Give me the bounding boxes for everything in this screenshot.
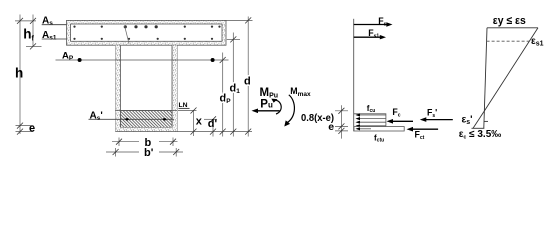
LN line <box>179 107 190 109</box>
svg-text:Fs': Fs' <box>427 107 437 119</box>
Fs1 arrow <box>354 36 381 38</box>
Fs' arrow <box>426 119 453 121</box>
dashed strain level line <box>487 40 529 42</box>
Mmax curved arrow <box>288 95 295 123</box>
middle dim line <box>335 105 348 138</box>
compression hatch block <box>121 111 173 128</box>
dimension slash ticks left <box>17 18 36 135</box>
right dimension lines <box>194 17 253 137</box>
d1 top extension <box>227 38 240 40</box>
x dim line <box>193 111 195 137</box>
force diagram axis <box>353 19 355 132</box>
d1 dim line <box>232 33 234 137</box>
strain axis vertical edge <box>484 28 487 129</box>
svg-text:e: e <box>328 121 334 133</box>
dp dim line <box>222 53 224 137</box>
flange rebar dots bottom row <box>73 38 75 40</box>
Ap tendon line <box>56 59 229 61</box>
Fct arrow <box>412 128 438 130</box>
compression stress block <box>354 114 386 127</box>
web inner stirrup lines <box>121 45 173 127</box>
es' level tick <box>484 120 488 122</box>
e ticks bottom left <box>16 126 34 132</box>
d dim line <box>247 17 249 137</box>
Pu arrow <box>257 110 280 112</box>
Fs arrow <box>354 24 387 26</box>
svg-text:Pu: Pu <box>260 99 273 111</box>
As' leader line with bars <box>89 118 175 120</box>
leader diagonal inside flange <box>125 26 130 44</box>
strain bottom edge <box>472 127 485 129</box>
hf bottom extension <box>26 45 42 47</box>
fctu tension bar <box>354 127 404 131</box>
svg-text:d': d' <box>208 118 218 130</box>
Ap tendon dot right <box>211 58 215 62</box>
left dimension: top reference line <box>15 15 42 135</box>
hatch bottom boundary <box>121 127 173 129</box>
svg-text:εy ≤ εs: εy ≤ εs <box>493 15 526 27</box>
d top extension (beam top extended) <box>226 19 253 21</box>
As1 leader line <box>42 38 67 40</box>
strain top edge <box>487 27 538 29</box>
strain slope line <box>473 28 538 129</box>
Fc arrow <box>392 120 413 122</box>
b dimension <box>112 138 178 147</box>
svg-text:e: e <box>29 122 35 134</box>
d' dim line <box>212 119 214 136</box>
b' dimension <box>106 148 183 157</box>
flange inner stirrup rectangle <box>71 24 222 41</box>
web left wall <box>115 45 117 131</box>
right dim slash ticks <box>191 17 252 134</box>
svg-text:b': b' <box>144 147 154 159</box>
As1 bar cluster <box>124 25 127 28</box>
svg-text:h: h <box>15 65 23 80</box>
stacked stress arrows <box>359 115 386 126</box>
strain diagram <box>472 28 539 129</box>
svg-text:As': As' <box>90 111 103 123</box>
bottom cover stipple band <box>116 128 178 132</box>
svg-text:d: d <box>244 76 251 88</box>
web bottom edge <box>116 131 253 133</box>
h dimension line <box>19 21 21 134</box>
web right wall <box>176 45 178 131</box>
flange outer rectangle <box>67 20 227 45</box>
As leader line <box>42 24 67 26</box>
svg-text:LN: LN <box>179 102 188 109</box>
neutral axis top line <box>116 110 178 112</box>
flange rebar dots top row <box>73 25 220 40</box>
MPu curved arrow <box>273 100 282 114</box>
hf dimension line <box>32 21 34 47</box>
web wall stipple bands <box>116 45 121 131</box>
As' level extension <box>204 118 217 120</box>
Ap tendon dot left <box>78 58 82 62</box>
svg-text:x: x <box>196 116 203 128</box>
